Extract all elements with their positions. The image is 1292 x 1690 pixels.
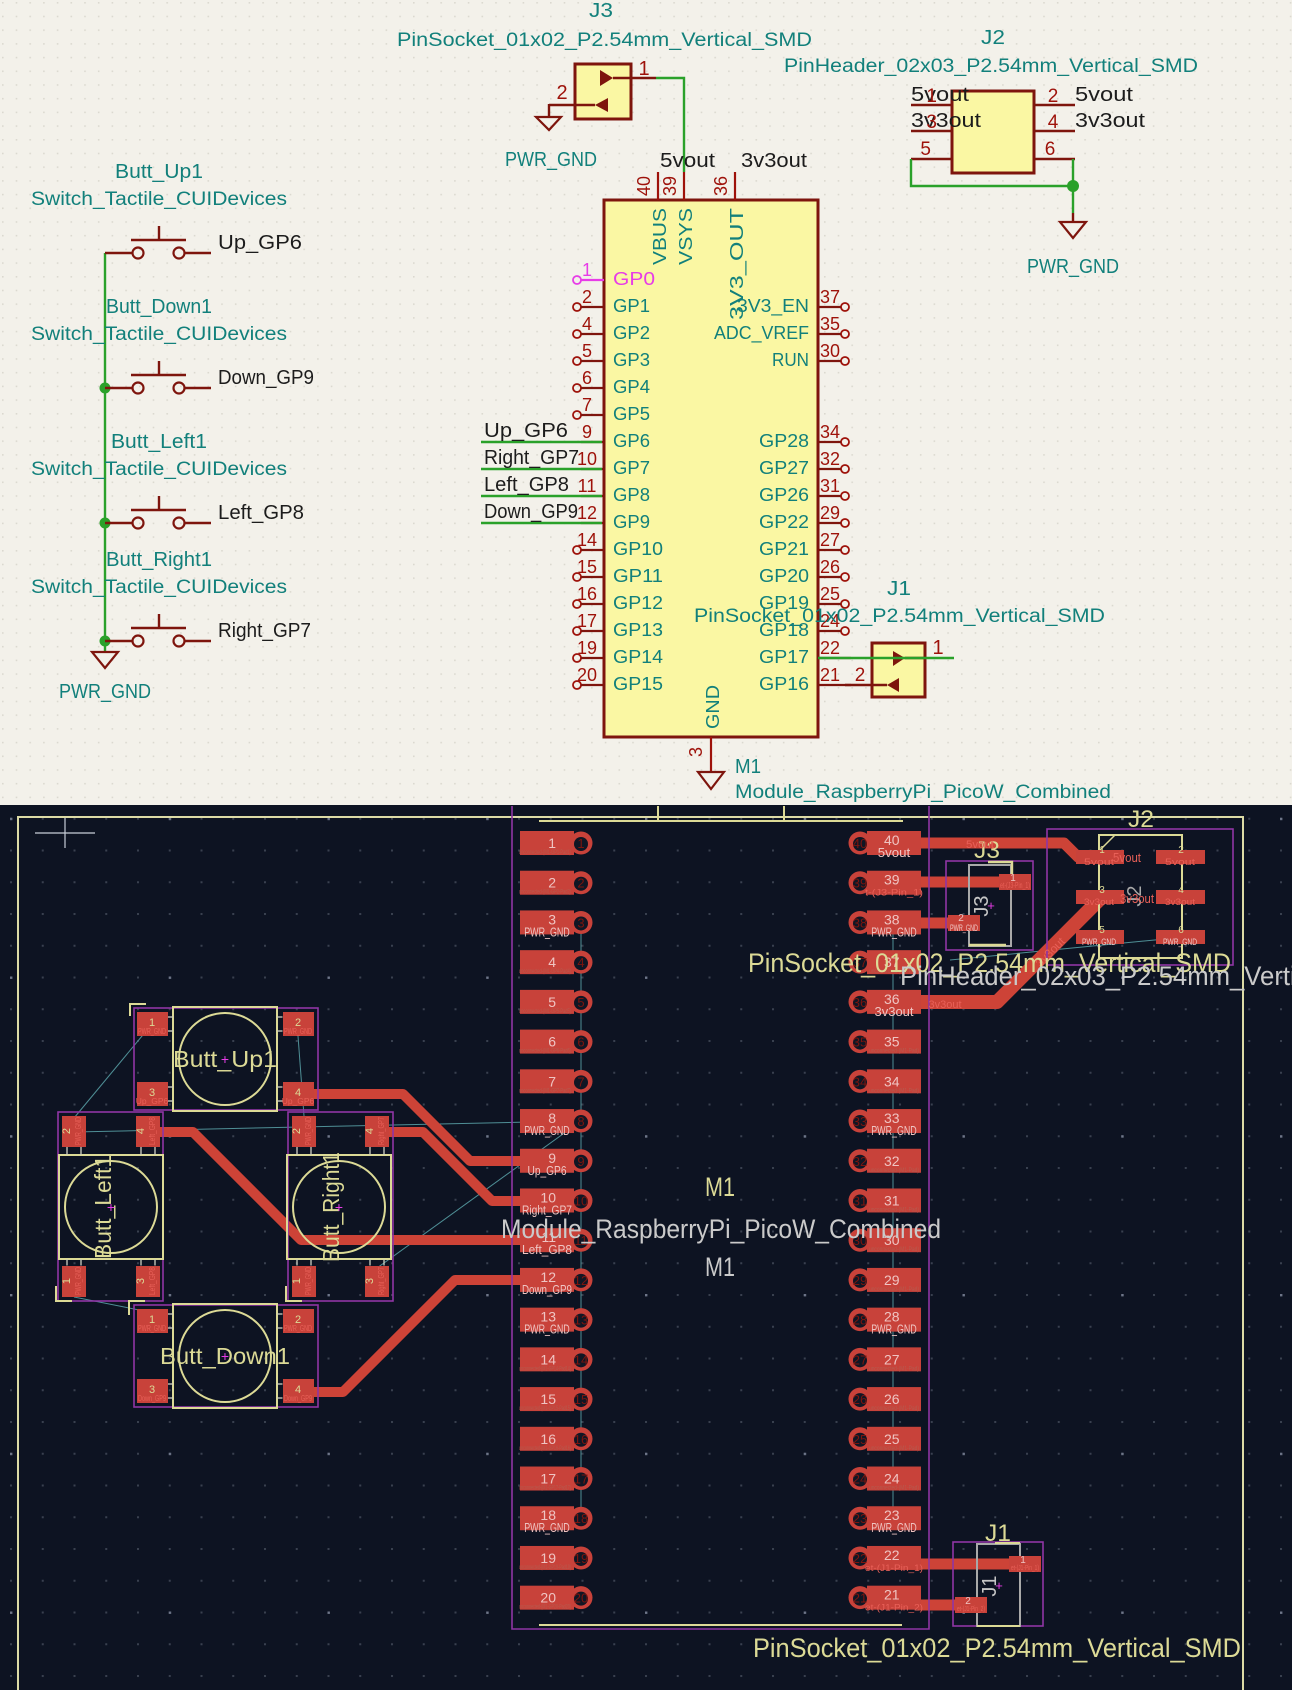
- svg-text:38: 38: [853, 915, 867, 930]
- svg-text:PWR_GND: PWR_GND: [73, 1117, 83, 1145]
- wire Down_GP9 stub at M1: [481, 522, 602, 524]
- svg-text:6: 6: [1178, 925, 1184, 936]
- svg-text:+: +: [987, 898, 995, 913]
- wire J3 pin1 to M1 VSYS (5vout net): [656, 78, 684, 172]
- trace Up_GP6 from Butt_Up1 pad4 to M1 pad9: [298, 1094, 545, 1161]
- svg-text:Up_GP6: Up_GP6: [282, 1096, 315, 1106]
- J1 pin 1: [893, 651, 905, 666]
- svg-text:GP2: GP2: [613, 322, 650, 343]
- svg-text:3v3out: 3v3out: [1165, 897, 1195, 908]
- wire J2 pin5 to pin6 ground net: [911, 159, 1073, 186]
- svg-text:3v3out: 3v3out: [911, 110, 982, 132]
- svg-text:PinSocket_01x02_P2.54mm_Vertic: PinSocket_01x02_P2.54mm_Vertical_SMD: [753, 1633, 1241, 1663]
- svg-text:GP15: GP15: [613, 673, 663, 694]
- svg-text:PinSocket_01x02_P2.54mm_Vertic: PinSocket_01x02_P2.54mm_Vertical_SMD: [694, 606, 1105, 627]
- svg-text:3: 3: [577, 915, 584, 930]
- J2 pin 6: [1034, 158, 1075, 160]
- M1 footprint pad 15: [519, 1387, 593, 1412]
- svg-text:VBUS: VBUS: [649, 208, 670, 265]
- svg-text:unconnected-(M1-Pad): unconnected-(M1-Pad): [869, 1446, 919, 1452]
- M1 top pin 39 VSYS: [683, 172, 685, 200]
- svg-text:Butt_Left1: Butt_Left1: [111, 431, 207, 453]
- svg-text:24: 24: [884, 1471, 900, 1487]
- M1 footprint pad 31: [849, 1188, 922, 1213]
- M1 footprint pad 8: [520, 1109, 593, 1138]
- M1 pin 31 GP26: [841, 492, 849, 500]
- Butt_Right1 footprint circle: [293, 1161, 385, 1253]
- svg-text:1: 1: [291, 1278, 303, 1284]
- svg-text:36: 36: [853, 995, 867, 1010]
- M1 footprint pad 9: [520, 1149, 593, 1178]
- svg-text:Switch_Tactile_CUIDevices: Switch_Tactile_CUIDevices: [31, 324, 287, 345]
- svg-text:3v3out: 3v3out: [1120, 891, 1154, 906]
- M1 top pin 40 VBUS: [657, 172, 659, 200]
- M1 footprint pad 36: [849, 990, 922, 1019]
- svg-text:GP27: GP27: [759, 457, 809, 478]
- svg-text:32: 32: [884, 1153, 900, 1169]
- svg-text:GP6: GP6: [613, 430, 650, 451]
- svg-text:Right_GP7: Right_GP7: [376, 1117, 386, 1145]
- svg-text:5vout: 5vout: [1075, 84, 1134, 106]
- switch Butt_Left1 symbol: [105, 522, 133, 524]
- Butt_Left1 pad 2 PWR_GND: [62, 1116, 86, 1147]
- svg-text:Left_GP8: Left_GP8: [218, 502, 304, 524]
- M1 footprint pad 3: [520, 910, 593, 939]
- svg-text:GP7: GP7: [613, 457, 650, 478]
- svg-text:GP8: GP8: [613, 484, 650, 505]
- J2 footprint pad 1: [1076, 850, 1124, 864]
- svg-text:PinHeader_02x03_P2.54mm_Vertic: PinHeader_02x03_P2.54mm_Vertical_SMD: [784, 56, 1198, 77]
- svg-text:3v3out: 3v3out: [929, 999, 962, 1011]
- svg-text:Up_GP6: Up_GP6: [136, 1096, 169, 1106]
- M1 footprint pad 30: [849, 1228, 922, 1253]
- wire Left_GP8 stub at M1: [481, 495, 602, 497]
- M1 pin 30 RUN: [841, 357, 849, 365]
- svg-text:+: +: [335, 1199, 343, 1215]
- svg-text:5: 5: [920, 139, 931, 160]
- svg-text:5: 5: [582, 341, 592, 361]
- J3 pin 1: [600, 70, 613, 86]
- svg-text:Switch_Tactile_CUIDevices: Switch_Tactile_CUIDevices: [31, 577, 287, 598]
- svg-text:1: 1: [932, 637, 943, 659]
- M1 pin 25 GP19: [841, 600, 849, 608]
- svg-text:et-(J3-Pin_1): et-(J3-Pin_1): [1000, 881, 1030, 890]
- junction at ground bus / Butt_Right1: [100, 636, 111, 647]
- Butt_Down1 pad 1 PWR_GND: [137, 1309, 168, 1333]
- switch Butt_Right1 symbol: [105, 640, 133, 642]
- svg-text:3: 3: [1099, 885, 1105, 896]
- svg-text:PWR_GND: PWR_GND: [871, 925, 917, 939]
- svg-text:16: 16: [540, 1431, 556, 1447]
- wire ground bus for buttons: [104, 253, 106, 652]
- svg-text:40: 40: [634, 176, 654, 196]
- J1 pin 2: [887, 678, 899, 692]
- svg-text:37: 37: [820, 287, 840, 307]
- svg-text:1: 1: [548, 835, 556, 851]
- J3 footprint courtyard: [946, 861, 1033, 950]
- J1 footprint body outline: [977, 1544, 1020, 1626]
- Butt_Right1 pad 1 PWR_GND: [292, 1266, 316, 1297]
- svg-text:t-(J3-Pin_1): t-(J3-Pin_1): [865, 888, 923, 899]
- J2 pin 1: [911, 104, 952, 106]
- trace PWR_GND from M1 pad38 to J3 pad2: [918, 918, 952, 929]
- M1 footprint pad 12: [520, 1268, 593, 1297]
- M1 top pin 36 3V3_OUT: [734, 172, 736, 200]
- wire M1 GP17 to J1 pin 1: [818, 657, 954, 659]
- Butt_Right1 footprint silkscreen outline: [287, 1155, 391, 1259]
- svg-text:PWR_GND: PWR_GND: [1163, 937, 1197, 948]
- Butt_Down1 corner marker: [129, 1301, 145, 1315]
- svg-text:35: 35: [884, 1034, 900, 1050]
- svg-text:25: 25: [853, 1432, 867, 1447]
- Butt_Up1 pad 1 PWR_GND: [137, 1012, 168, 1036]
- Butt_Right1 pad 3 Right_GP7: [365, 1266, 389, 1297]
- svg-text:+: +: [107, 1199, 115, 1215]
- svg-text:35: 35: [820, 314, 840, 334]
- Butt_Left1 corner marker: [56, 1286, 72, 1301]
- svg-text:GP26: GP26: [759, 484, 809, 505]
- Butt_Right1 pad 2 PWR_GND: [292, 1116, 316, 1147]
- J2 pin 2: [1034, 104, 1075, 106]
- J2 footprint pad 4: [1156, 890, 1205, 904]
- ratsnest Butt_Up1 pad1 to Butt_Left1 pad2: [74, 1024, 152, 1118]
- J2 footprint pad 2: [1156, 850, 1205, 864]
- J2 pin 5: [911, 158, 952, 160]
- svg-text:PWR_GND: PWR_GND: [950, 923, 978, 933]
- svg-text:unconnected-(M1-GP16-Pad16): unconnected-(M1-GP16-Pad16): [519, 1446, 571, 1452]
- svg-text:unconnected-(M1-Pad): unconnected-(M1-Pad): [869, 1287, 919, 1293]
- svg-text:Right_GP7: Right_GP7: [218, 620, 311, 642]
- svg-text:PWR_GND: PWR_GND: [524, 1124, 570, 1138]
- Butt_Down1 footprint courtyard: [134, 1305, 318, 1407]
- svg-text:19: 19: [577, 638, 597, 658]
- M1 footprint pad 18: [520, 1506, 593, 1535]
- junction at ground bus / Butt_Down1: [100, 383, 111, 394]
- svg-text:PWR_GND: PWR_GND: [505, 149, 597, 171]
- svg-text:26: 26: [884, 1391, 900, 1407]
- Butt_Up1 pad 4 Up_GP6: [283, 1082, 314, 1106]
- svg-text:1: 1: [638, 58, 649, 80]
- svg-text:GP17: GP17: [759, 646, 809, 667]
- Butt_Left1 footprint circle: [65, 1161, 157, 1253]
- svg-text:1: 1: [577, 836, 584, 851]
- J1 footprint courtyard: [953, 1542, 1043, 1626]
- wire Up_GP6 stub at M1: [481, 441, 602, 443]
- svg-text:2: 2: [291, 1128, 303, 1134]
- svg-text:Left_GP8: Left_GP8: [522, 1243, 572, 1257]
- svg-text:unconnected-(M1-Pad): unconnected-(M1-Pad): [869, 1486, 919, 1492]
- svg-text:2: 2: [556, 82, 567, 104]
- trace Right_GP7 from Butt_Right1 pad4 to M1 pad10: [377, 1132, 545, 1201]
- Butt_Up1 footprint circle: [179, 1013, 271, 1105]
- M1 footprint pad 17: [519, 1467, 593, 1492]
- svg-text:26: 26: [820, 557, 840, 577]
- svg-text:34: 34: [884, 1073, 900, 1089]
- M1 bottom pin 3 GND: [710, 737, 712, 772]
- svg-text:GP5: GP5: [613, 403, 650, 424]
- connector J1 body: [872, 643, 925, 697]
- ratsnest PWR_GND right column: [892, 934, 894, 1516]
- M1 footprint pad 40: [849, 831, 922, 860]
- svg-text:GP28: GP28: [759, 430, 809, 451]
- svg-text:31: 31: [853, 1193, 867, 1208]
- svg-text:GND: GND: [702, 685, 723, 729]
- svg-text:22: 22: [820, 638, 840, 658]
- svg-text:5vout: 5vout: [966, 839, 994, 851]
- ratsnest J2 row: [950, 939, 1165, 960]
- svg-text:6: 6: [548, 1034, 556, 1050]
- J2 footprint silkscreen outline: [1099, 835, 1182, 958]
- Butt_Down1 pad 4 Down_GP9: [283, 1379, 314, 1403]
- wire Right_GP7 stub at M1: [481, 468, 602, 470]
- M1 pin 4 GP2: [573, 330, 581, 338]
- svg-text:Up_GP6: Up_GP6: [218, 232, 302, 254]
- M1 footprint pad 5: [519, 990, 593, 1015]
- M1 footprint pad 34: [849, 1069, 922, 1094]
- M1 footprint pad 13: [520, 1308, 593, 1337]
- svg-text:unconnected-(M1-Pad): unconnected-(M1-Pad): [869, 1406, 919, 1412]
- svg-text:unconnected-(M1-Pad): unconnected-(M1-Pad): [869, 1049, 919, 1055]
- trace net J1 pin2 from M1 pad21 to J1 pad2: [918, 1600, 965, 1611]
- M1 pin 26 GP20: [841, 573, 849, 581]
- svg-text:4: 4: [582, 314, 592, 334]
- ratsnest module pad8 to Butt_Left1: [74, 1121, 575, 1132]
- svg-text:PWR_GND: PWR_GND: [524, 925, 570, 939]
- svg-text:Module_RaspberryPi_PicoW_Combi: Module_RaspberryPi_PicoW_Combined: [735, 782, 1111, 803]
- M1 pin 34 GP28: [841, 438, 849, 446]
- Butt_Down1 footprint circle: [179, 1310, 271, 1402]
- svg-text:2: 2: [1048, 86, 1059, 107]
- svg-text:7: 7: [548, 1073, 556, 1089]
- M1 pin 9 GP6: [581, 441, 604, 443]
- svg-text:18: 18: [574, 1511, 588, 1526]
- svg-text:GP10: GP10: [613, 538, 663, 559]
- M1 footprint pad 28: [849, 1308, 922, 1337]
- svg-text:13: 13: [574, 1313, 588, 1328]
- svg-text:15: 15: [574, 1392, 588, 1407]
- svg-text:4: 4: [364, 1128, 376, 1134]
- svg-text:20: 20: [574, 1591, 588, 1606]
- M1 pin 15 GP11: [573, 573, 581, 581]
- svg-text:Switch_Tactile_CUIDevices: Switch_Tactile_CUIDevices: [31, 459, 287, 480]
- svg-text:GP13: GP13: [613, 619, 663, 640]
- svg-text:+: +: [221, 1348, 229, 1364]
- svg-text:29: 29: [820, 503, 840, 523]
- svg-text:2: 2: [855, 665, 866, 686]
- ratsnest Butt_Right1 pad3 to module: [377, 1121, 581, 1268]
- Butt_Left1 footprint silkscreen outline: [59, 1155, 163, 1259]
- M1 pin 24 GP18: [841, 627, 849, 635]
- svg-text:3v3out: 3v3out: [741, 150, 807, 172]
- svg-text:unconnected-(M1-GP2-Pad2): unconnected-(M1-GP2-Pad2): [519, 890, 571, 896]
- svg-text:ADC_VREF: ADC_VREF: [714, 322, 809, 344]
- connector J3 body: [575, 64, 631, 119]
- svg-text:+: +: [995, 1578, 1003, 1593]
- Butt_Up1 footprint courtyard: [134, 1008, 318, 1110]
- M1 footprint courtyard: [512, 806, 929, 1629]
- svg-text:28: 28: [853, 1313, 867, 1328]
- svg-text:4: 4: [577, 955, 584, 970]
- svg-text:1: 1: [582, 260, 592, 280]
- svg-text:2: 2: [582, 287, 592, 307]
- svg-text:4: 4: [1178, 885, 1184, 896]
- M1 footprint pad 33: [849, 1109, 922, 1138]
- svg-text:unconnected-(M1-Pad): unconnected-(M1-Pad): [869, 1207, 919, 1213]
- svg-text:39: 39: [884, 872, 900, 888]
- M1 footprint pad 35: [849, 1030, 922, 1055]
- M1 footprint pad 11: [520, 1228, 593, 1257]
- svg-text:20: 20: [540, 1590, 556, 1606]
- svg-text:unconnected-(M1-GP20-Pad20): unconnected-(M1-GP20-Pad20): [519, 1605, 571, 1611]
- svg-text:GP14: GP14: [613, 646, 663, 667]
- svg-text:5vout: 5vout: [1165, 857, 1195, 868]
- svg-text:unconnected-(M1-GP6-Pad6): unconnected-(M1-GP6-Pad6): [519, 1049, 571, 1055]
- svg-text:J3: J3: [589, 0, 613, 22]
- M1 pin 14 GP10: [573, 546, 581, 554]
- svg-text:33: 33: [853, 1114, 867, 1129]
- M1 pin 27 GP21: [841, 546, 849, 554]
- trace net J1 pin1 from M1 pad22 to J1 pad1: [918, 1559, 1015, 1570]
- svg-text:25: 25: [820, 584, 840, 604]
- svg-text:5: 5: [1099, 925, 1105, 936]
- svg-text:30: 30: [820, 341, 840, 361]
- wire junction down to ground: [1072, 186, 1074, 213]
- M1 footprint pad 39: [849, 871, 924, 899]
- svg-text:et-(J1-Pin_2): et-(J1-Pin_2): [957, 1604, 985, 1613]
- svg-text:40: 40: [853, 836, 867, 851]
- svg-text:GP16: GP16: [759, 673, 809, 694]
- ground symbol PWR_GND at J3 pin 2: [548, 104, 550, 117]
- svg-text:Butt_Right1: Butt_Right1: [106, 549, 212, 571]
- svg-text:PWR_GND: PWR_GND: [524, 1323, 570, 1337]
- svg-text:RUN: RUN: [772, 349, 809, 370]
- svg-text:10: 10: [577, 449, 597, 469]
- svg-text:3V3_EN: 3V3_EN: [737, 295, 809, 317]
- svg-text:9: 9: [577, 1154, 584, 1169]
- svg-text:1: 1: [1099, 845, 1105, 856]
- svg-text:Butt_Down1: Butt_Down1: [106, 296, 212, 318]
- svg-text:19: 19: [540, 1550, 556, 1566]
- svg-text:1: 1: [926, 86, 937, 107]
- M1 footprint silkscreen outline: [539, 820, 903, 822]
- trace 3v3out from M1 pad36 to J2 pad3: [918, 897, 1100, 1002]
- svg-text:3: 3: [686, 747, 706, 757]
- svg-text:17: 17: [574, 1472, 588, 1487]
- svg-text:21: 21: [820, 665, 840, 685]
- M1 footprint pad 37: [849, 950, 922, 975]
- svg-text:39: 39: [660, 176, 680, 196]
- svg-text:3: 3: [364, 1278, 376, 1284]
- svg-text:Up_GP6: Up_GP6: [528, 1164, 567, 1178]
- M1 pin 5 GP3: [573, 357, 581, 365]
- PCB editor background: [0, 805, 1292, 1690]
- M1 footprint pad 32: [849, 1149, 922, 1174]
- M1 pin 1 GP0: [573, 276, 581, 284]
- svg-text:Right_GP7: Right_GP7: [484, 447, 579, 469]
- svg-text:25: 25: [884, 1431, 900, 1447]
- svg-text:29: 29: [884, 1272, 900, 1288]
- M1 pin 11 GP8: [581, 495, 604, 497]
- svg-text:Up_GP6: Up_GP6: [484, 420, 568, 442]
- svg-text:36: 36: [711, 176, 731, 196]
- svg-text:2: 2: [61, 1128, 73, 1134]
- svg-text:20: 20: [577, 665, 597, 685]
- svg-text:1: 1: [61, 1278, 73, 1284]
- M1 footprint pad 10: [520, 1188, 593, 1217]
- svg-text:6: 6: [582, 368, 592, 388]
- ground symbol PWR_GND at M1 GND pin: [698, 772, 724, 789]
- svg-text:3: 3: [135, 1278, 147, 1284]
- svg-text:7: 7: [582, 395, 592, 415]
- svg-text:PWR_GND: PWR_GND: [871, 1521, 917, 1535]
- svg-text:GP12: GP12: [613, 592, 663, 613]
- svg-text:14: 14: [540, 1351, 556, 1367]
- svg-text:PinSocket_01x02_P2.54mm_Vertic: PinSocket_01x02_P2.54mm_Vertical_SMD: [397, 30, 812, 51]
- svg-text:22: 22: [884, 1547, 900, 1563]
- svg-text:14: 14: [574, 1352, 588, 1367]
- svg-text:unconnected-(M1-Pad): unconnected-(M1-Pad): [869, 1088, 919, 1094]
- svg-text:5: 5: [577, 995, 584, 1010]
- Butt_Left1 pad 1 PWR_GND: [62, 1266, 86, 1297]
- svg-text:unconnected-(M1-GP15-Pad15): unconnected-(M1-GP15-Pad15): [519, 1406, 571, 1412]
- svg-text:PWR_GND: PWR_GND: [138, 1026, 166, 1036]
- svg-text:+: +: [221, 1051, 229, 1067]
- svg-text:5: 5: [548, 994, 556, 1010]
- svg-text:M1: M1: [735, 756, 761, 778]
- J1 footprint pad 2: [955, 1597, 987, 1613]
- J3 pin 2: [595, 98, 608, 112]
- M1 pin 10 GP7: [581, 468, 604, 470]
- trace Down_GP9 from Butt_Down1 pad4 to M1 pad12: [298, 1280, 545, 1392]
- svg-text:PWR_GND: PWR_GND: [73, 1267, 83, 1295]
- svg-text:M1: M1: [705, 1252, 735, 1282]
- M1 pin 22 GP17: [818, 657, 851, 659]
- M1 pin 20 GP15: [573, 681, 581, 689]
- svg-text:5vout: 5vout: [1113, 850, 1141, 865]
- svg-text:5vout: 5vout: [660, 150, 715, 172]
- svg-text:unconnected-(M1-GP4-Pad4): unconnected-(M1-GP4-Pad4): [519, 969, 571, 975]
- svg-text:7: 7: [577, 1074, 584, 1089]
- svg-text:15: 15: [540, 1391, 556, 1407]
- J2 footprint pad 5: [1076, 930, 1124, 944]
- M1 pin 16 GP12: [573, 600, 581, 608]
- Butt_Down1 footprint silkscreen outline: [173, 1304, 277, 1408]
- M1 footprint pad 7: [519, 1069, 593, 1094]
- J2 pin 4: [1034, 130, 1075, 132]
- svg-text:10: 10: [574, 1193, 588, 1208]
- schematic sheet background: [0, 0, 1292, 805]
- svg-text:unconnected-(M1-GP7-Pad7): unconnected-(M1-GP7-Pad7): [519, 1088, 571, 1094]
- svg-text:et-(J1-Pin_2): et-(J1-Pin_2): [865, 1603, 923, 1614]
- svg-text:PWR_GND: PWR_GND: [284, 1323, 312, 1333]
- svg-text:J1: J1: [887, 578, 911, 600]
- svg-text:unconnected-(M1-GP19-Pad19): unconnected-(M1-GP19-Pad19): [519, 1565, 571, 1571]
- PCB page border frame: [18, 817, 1243, 1690]
- svg-text:et-(J1-Pin_1): et-(J1-Pin_1): [1011, 1563, 1039, 1572]
- trace 5vout from M1 pad40 to J2 pad1: [918, 843, 1090, 857]
- svg-text:35: 35: [853, 1035, 867, 1050]
- svg-text:unconnected-(M1-GP14-Pad14): unconnected-(M1-GP14-Pad14): [519, 1366, 571, 1372]
- M1 pin 21 GP16: [818, 684, 851, 686]
- svg-text:PinHeader_02x03_P2.54mm_Vertic: PinHeader_02x03_P2.54mm_Vertical_SMD: [900, 961, 1292, 991]
- ground symbol PWR_GND at J2: [1072, 213, 1074, 222]
- M1 footprint pad 16: [519, 1427, 593, 1452]
- M1 footprint pad 29: [849, 1268, 922, 1293]
- svg-text:19: 19: [574, 1551, 588, 1566]
- svg-text:Left_GP8: Left_GP8: [147, 1267, 157, 1295]
- svg-text:Right_GP7: Right_GP7: [376, 1267, 386, 1295]
- Butt_Up1 corner marker: [130, 1004, 146, 1016]
